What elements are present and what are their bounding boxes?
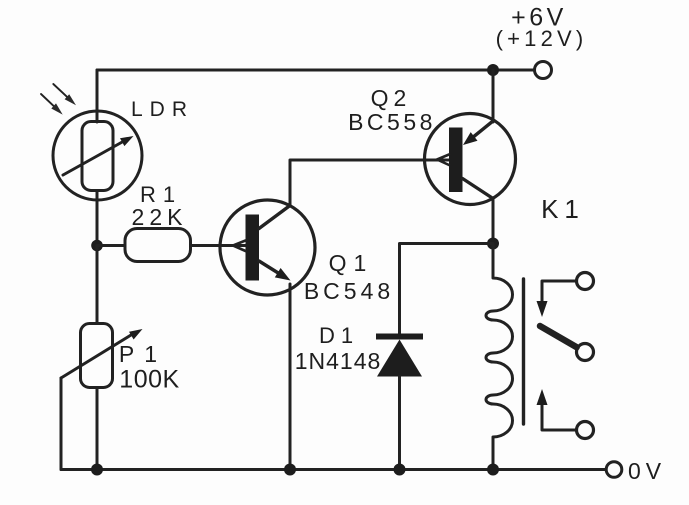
node rail Q1 — [284, 464, 296, 476]
label BC558 — [348, 109, 436, 135]
wire R1 to Q1 base — [191, 244, 246, 247]
light arrow 1 — [53, 84, 76, 105]
svg-text:BC558: BC558 — [348, 109, 436, 135]
wire node to R1 — [97, 244, 125, 247]
wire NC contact — [542, 281, 575, 302]
svg-text:1N4148: 1N4148 — [295, 348, 382, 374]
label 22K — [132, 204, 188, 230]
wire node to D1 cathode — [400, 244, 494, 334]
svg-text:Q1: Q1 — [329, 250, 374, 276]
potentiometer P1 — [61, 324, 143, 388]
arrow NC contact — [537, 301, 548, 317]
label 0V — [628, 458, 666, 484]
label +6V — [511, 4, 567, 32]
terminal common — [577, 344, 594, 361]
LDR — [53, 111, 142, 200]
svg-text:D1: D1 — [319, 323, 359, 348]
svg-text:P1: P1 — [119, 341, 167, 367]
light arrow 2 — [41, 94, 63, 115]
label D1 — [319, 323, 359, 348]
svg-text:100K: 100K — [119, 366, 179, 394]
label Q2 — [371, 85, 412, 111]
terminal contact NC — [577, 273, 594, 290]
terminal NO — [577, 422, 594, 439]
label LDR — [131, 98, 194, 121]
resistor R1 — [125, 229, 191, 262]
label R1 — [140, 182, 182, 207]
svg-text:K1: K1 — [541, 194, 585, 224]
label 1N4148 — [295, 348, 382, 374]
label K1 — [541, 194, 585, 224]
transistor Q2 — [425, 114, 516, 205]
wire LDR top — [96, 70, 99, 122]
transistor Q1 — [220, 200, 315, 295]
wire P1 top — [96, 246, 99, 324]
wire Q2 emitter to rail — [492, 70, 495, 122]
relay coil K1 — [486, 244, 513, 470]
wire P1 bottom — [96, 388, 99, 470]
wire bottom rail — [61, 468, 606, 471]
wire D1 anode to rail — [398, 377, 401, 470]
wire NO contact — [542, 404, 575, 430]
wire LDR to R1 node — [96, 191, 99, 246]
node rail coil — [487, 464, 499, 476]
label (+12V) — [496, 26, 588, 51]
svg-text:22K: 22K — [132, 204, 188, 230]
label P1 — [119, 341, 167, 367]
svg-text:Q2: Q2 — [371, 85, 412, 111]
label 100K — [119, 366, 179, 394]
arrow NO contact — [537, 389, 548, 405]
node collector junction — [487, 238, 499, 250]
wire Q1 emitter to rail — [289, 284, 292, 470]
diode D1 — [376, 334, 423, 377]
svg-text:(+12V): (+12V) — [496, 26, 588, 51]
wire Q1 collector to Q2 base — [290, 160, 449, 206]
svg-text:BC548: BC548 — [304, 278, 394, 304]
wire P1 wiper return — [60, 378, 63, 470]
switch arm — [540, 326, 577, 347]
node supply junction — [487, 64, 499, 76]
relay core bar — [522, 279, 525, 424]
label BC548 — [304, 278, 394, 304]
label Q1 — [329, 250, 374, 276]
node rail P1 — [91, 464, 103, 476]
svg-text:LDR: LDR — [131, 98, 194, 121]
node R1 junction — [91, 240, 103, 252]
terminal +6V — [535, 62, 552, 79]
terminal 0V — [606, 462, 622, 478]
wire top supply rail — [97, 69, 534, 72]
wire Q2 collector to node — [492, 198, 495, 244]
svg-text:0V: 0V — [628, 458, 666, 484]
node rail D1 — [394, 464, 406, 476]
